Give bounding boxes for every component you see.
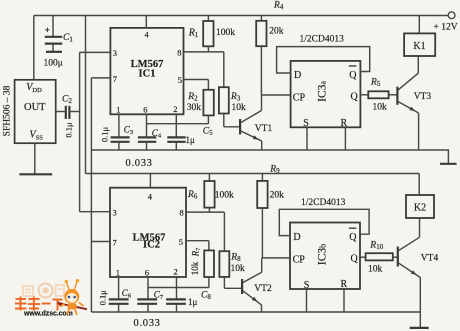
resistor R3 xyxy=(219,87,229,113)
flip-flop IC3a xyxy=(291,61,361,127)
transistor VT1 xyxy=(239,119,241,135)
wire pin8/R1 to R3 xyxy=(223,52,225,87)
wire ground bus C xyxy=(90,78,92,312)
svg-text:R: R xyxy=(341,118,348,129)
svg-text:1: 1 xyxy=(116,267,120,277)
pin 3 IC1 wire xyxy=(80,51,111,53)
svg-text:3: 3 xyxy=(113,208,117,218)
svg-text:100k: 100k xyxy=(216,28,235,38)
wire bottom ground rail xyxy=(91,311,420,313)
svg-text:6: 6 xyxy=(145,267,149,277)
svg-text:C5: C5 xyxy=(203,126,213,137)
pin 8 IC1 wire xyxy=(184,51,224,53)
resistor R10 xyxy=(360,256,366,258)
svg-text:R4: R4 xyxy=(273,0,284,11)
svg-text:R10: R10 xyxy=(369,241,383,252)
pin 8 IC2 wire xyxy=(186,211,224,213)
pin 2 IC2 xyxy=(176,277,178,299)
svg-text:Q: Q xyxy=(351,91,359,102)
pin 4 IC2 xyxy=(149,174,151,188)
svg-text:7: 7 xyxy=(113,238,117,248)
svg-text:5: 5 xyxy=(179,237,183,247)
svg-text:8: 8 xyxy=(180,207,184,217)
pin 7 IC2 wire xyxy=(91,241,110,243)
pin 4 IC1 xyxy=(145,16,147,28)
pin 6 IC2 xyxy=(147,277,149,299)
svg-text:C1: C1 xyxy=(63,33,73,44)
svg-text:IC3a: IC3a xyxy=(316,81,328,102)
svg-text:1μ: 1μ xyxy=(186,135,196,145)
svg-text:100k: 100k xyxy=(215,190,234,200)
pin 5 IC1 wire xyxy=(184,79,209,81)
capacitor C1 xyxy=(52,16,54,37)
svg-text:2: 2 xyxy=(174,267,178,277)
svg-text:4: 4 xyxy=(148,192,153,202)
svg-text:10k: 10k xyxy=(368,265,383,275)
pin 6 IC1 xyxy=(146,114,148,137)
svg-text:1μ: 1μ xyxy=(188,297,198,307)
watermark mascot xyxy=(61,279,84,315)
resistor R8 xyxy=(219,251,229,277)
IR receiver module SFH506-38 xyxy=(15,80,56,143)
resistor R1 xyxy=(207,16,209,22)
wire +12 bus B xyxy=(85,16,87,174)
svg-text:0.033: 0.033 xyxy=(126,158,153,169)
svg-text:C2: C2 xyxy=(62,94,72,105)
svg-text:R3: R3 xyxy=(230,92,241,103)
svg-text:Q: Q xyxy=(351,253,359,264)
svg-text:+ 12V: + 12V xyxy=(434,23,458,33)
svg-text:1/2CD4013: 1/2CD4013 xyxy=(301,198,346,208)
svg-text:D: D xyxy=(294,70,301,81)
wire CP node IC3b xyxy=(262,257,290,259)
resistor R7 xyxy=(208,241,210,251)
svg-text:10k: 10k xyxy=(190,261,200,275)
svg-text:R2: R2 xyxy=(187,92,198,103)
svg-text:IC1: IC1 xyxy=(139,68,156,79)
wire VDD supply drop xyxy=(33,16,35,80)
svg-text:www.dzsc.com: www.dzsc.com xyxy=(23,311,73,318)
wire VSS to ground xyxy=(34,143,36,174)
ground right top xyxy=(440,163,457,165)
ground under C1 xyxy=(46,51,62,53)
svg-text:C8: C8 xyxy=(201,291,211,302)
wire R9 +12V bus xyxy=(86,173,420,175)
pin 7 IC1 wire xyxy=(91,77,110,79)
pin 1 IC1 xyxy=(118,114,120,137)
svg-text:+: + xyxy=(45,25,50,35)
svg-text:R5: R5 xyxy=(370,78,381,89)
svg-text:CP: CP xyxy=(293,254,306,265)
wire R2 bottom to pin 6 xyxy=(147,123,209,125)
wire top ground rail xyxy=(91,150,448,163)
svg-text:VT2: VT2 xyxy=(254,284,272,294)
transistor VT3 xyxy=(396,87,398,105)
transistor VT2 xyxy=(241,279,243,294)
svg-text:5: 5 xyxy=(178,75,182,85)
svg-text:1: 1 xyxy=(116,105,120,115)
pin 5 IC2 wire xyxy=(186,240,209,242)
svg-text:20k: 20k xyxy=(270,191,285,201)
svg-text:10k: 10k xyxy=(373,102,388,112)
svg-text:Q: Q xyxy=(349,70,357,81)
svg-text:6: 6 xyxy=(143,105,147,115)
wire R7 bottom to pin 6 xyxy=(148,287,209,289)
watermark faint row xyxy=(23,284,64,298)
wire CP node IC3a xyxy=(261,94,290,96)
capacitor C3 xyxy=(111,136,130,138)
svg-text:3: 3 xyxy=(113,48,117,58)
svg-text:20k: 20k xyxy=(269,26,284,36)
capacitor C7 xyxy=(137,298,157,300)
wire D-Qbar feedback loop IC3b xyxy=(279,209,369,235)
svg-text:VT1: VT1 xyxy=(255,124,273,134)
svg-text:0.1μ: 0.1μ xyxy=(100,126,110,142)
wire pin8/R6 to R8 xyxy=(223,212,225,251)
svg-text:30k: 30k xyxy=(187,103,202,113)
resistor R5 xyxy=(360,94,368,96)
svg-text:0.1μ: 0.1μ xyxy=(98,290,108,306)
resistor R2 xyxy=(207,80,209,90)
svg-text:R9: R9 xyxy=(269,164,280,175)
resistor R6 xyxy=(208,174,210,182)
svg-text:SFH506 – 38: SFH506 – 38 xyxy=(2,85,12,136)
svg-text:CP: CP xyxy=(293,92,306,103)
resistor 20k bottom xyxy=(261,174,263,181)
svg-text:Q: Q xyxy=(349,232,357,243)
svg-text:IC2: IC2 xyxy=(143,240,160,251)
relay K1 xyxy=(418,16,420,34)
svg-text:8: 8 xyxy=(177,47,181,57)
ground under VT4 xyxy=(410,327,429,329)
wire +12V top rail xyxy=(34,15,448,17)
capacitor C5 1u xyxy=(167,136,185,138)
svg-text:1/2CD4013: 1/2CD4013 xyxy=(300,35,345,45)
svg-text:S: S xyxy=(303,118,309,129)
capacitor C2 xyxy=(56,111,65,113)
svg-text:R8: R8 xyxy=(230,253,241,264)
svg-text:IC3b: IC3b xyxy=(317,244,329,265)
pin 2 IC1 xyxy=(175,114,177,137)
svg-text:R6: R6 xyxy=(187,190,198,201)
svg-text:VT4: VT4 xyxy=(421,254,439,264)
IC LM567 IC2 xyxy=(110,188,186,277)
wire D-Qbar feedback loop IC3a xyxy=(277,47,370,73)
svg-text:R: R xyxy=(341,279,348,290)
ground under SFH506 xyxy=(19,173,52,175)
svg-text:10k: 10k xyxy=(232,103,247,113)
svg-text:10k: 10k xyxy=(231,264,246,274)
svg-text:2: 2 xyxy=(173,104,177,114)
node +12V terminal xyxy=(448,12,455,19)
wire signal bus A (pin3 IC1 to pin3 IC2) xyxy=(79,52,81,211)
resistor 20k top xyxy=(260,16,262,21)
capacitor C8 1u xyxy=(166,298,186,300)
svg-text:D: D xyxy=(293,232,300,243)
svg-text:7: 7 xyxy=(113,74,117,84)
pin 3 IC2 wire xyxy=(80,211,110,213)
svg-text:100μ: 100μ xyxy=(44,58,63,68)
svg-text:K2: K2 xyxy=(414,202,426,213)
svg-text:K1: K1 xyxy=(413,41,425,52)
IC LM567 IC1 xyxy=(110,28,183,114)
capacitor C6 xyxy=(109,298,129,300)
pin 1 IC2 xyxy=(118,277,120,299)
flip-flop IC3b xyxy=(290,223,360,290)
relay K2 xyxy=(418,174,420,196)
watermark logo text xyxy=(15,297,63,311)
svg-text:0.1μ: 0.1μ xyxy=(63,122,73,138)
svg-text:0.033: 0.033 xyxy=(134,318,161,329)
svg-text:OUT: OUT xyxy=(24,102,46,113)
capacitor C4 xyxy=(138,136,156,138)
svg-text:VT3: VT3 xyxy=(414,92,432,102)
transistor VT4 xyxy=(397,247,399,267)
watermark arrow xyxy=(61,304,87,310)
